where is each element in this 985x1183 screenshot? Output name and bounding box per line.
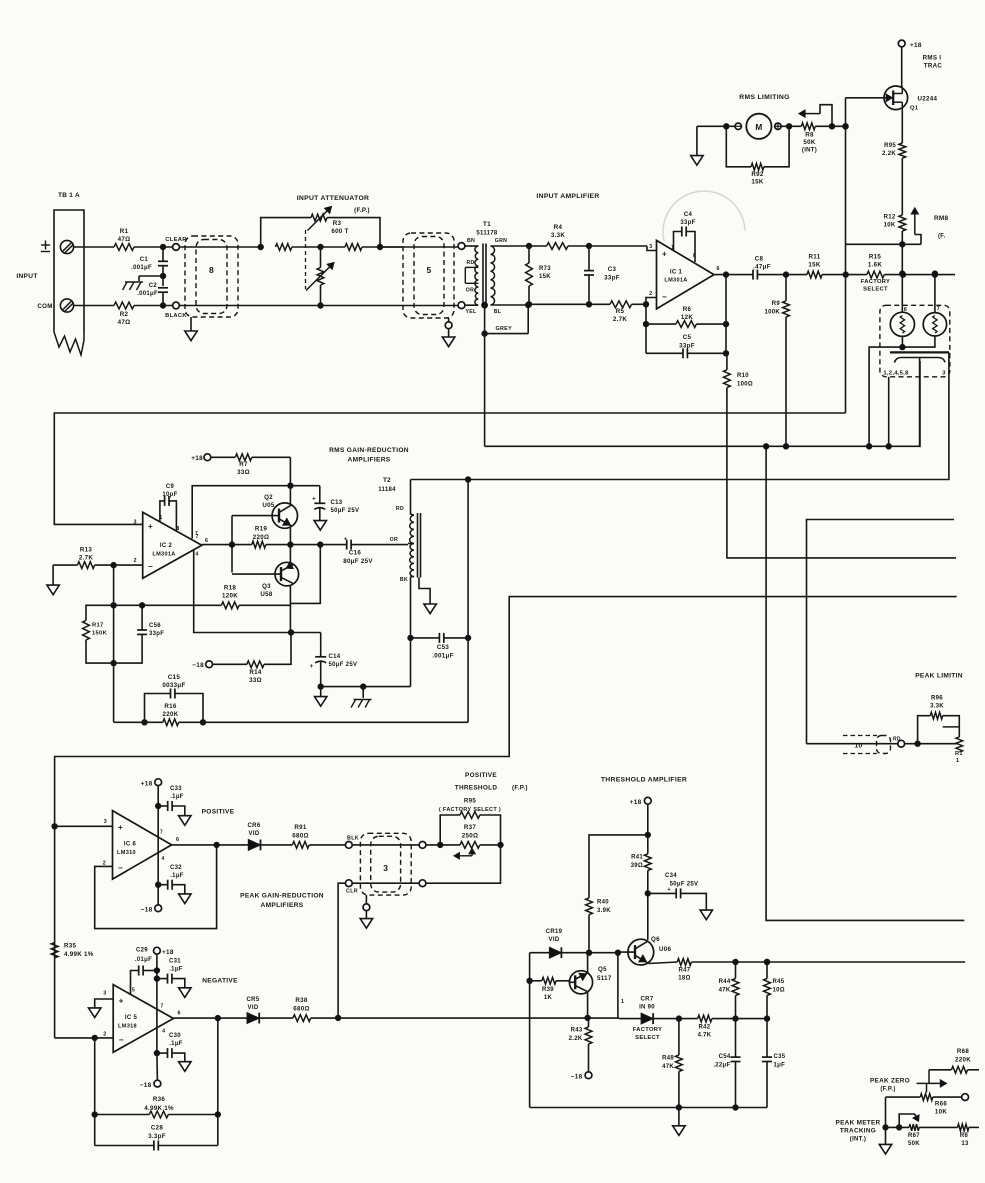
svg-text:2: 2 bbox=[133, 558, 136, 564]
terminal -18 RMS bbox=[192, 661, 212, 669]
svg-text:CR19: CR19 bbox=[546, 929, 563, 935]
svg-text:7: 7 bbox=[195, 531, 198, 537]
terminal +18 RMS bbox=[191, 454, 211, 462]
svg-text:INPUT: INPUT bbox=[16, 273, 37, 280]
svg-text:3: 3 bbox=[104, 819, 107, 825]
svg-text:AMPLIFIERS: AMPLIFIERS bbox=[261, 902, 304, 909]
svg-text:R8: R8 bbox=[805, 132, 814, 139]
wire T2 bk down bbox=[410, 638, 412, 687]
wire R66 left down bbox=[883, 1097, 888, 1144]
potentiometer R12 RM8 bbox=[846, 208, 949, 247]
resistor R5 bbox=[610, 301, 632, 323]
wire net y597 bbox=[55, 597, 957, 1038]
T2 core ground bbox=[419, 578, 436, 614]
svg-text:(F.P.): (F.P.) bbox=[880, 1087, 895, 1093]
svg-text:18Ω: 18Ω bbox=[678, 976, 690, 982]
wire BLACK to attenuator bbox=[179, 303, 323, 308]
potentiometer R8 bbox=[799, 105, 846, 154]
transformer T1 core bbox=[483, 244, 486, 308]
svg-text:+: + bbox=[119, 997, 124, 1006]
wire to connector 5 top bbox=[380, 246, 458, 248]
terminal +18 threshold bbox=[630, 797, 651, 806]
svg-text:.01μF: .01μF bbox=[135, 957, 152, 963]
resistor R1 bbox=[114, 228, 134, 250]
wire Q1 gate bbox=[846, 98, 885, 413]
svg-text:R95: R95 bbox=[464, 798, 477, 805]
svg-text:C35: C35 bbox=[774, 1054, 786, 1060]
resistor R16 bbox=[145, 703, 469, 726]
svg-text:2.2K: 2.2K bbox=[882, 151, 896, 157]
terminal -18 IC5 bbox=[140, 1080, 161, 1089]
wire net y519 bbox=[807, 520, 955, 744]
svg-text:C8: C8 bbox=[755, 256, 764, 263]
feedback vertical IC1 bbox=[723, 275, 728, 356]
svg-text:THRESHOLD: THRESHOLD bbox=[455, 785, 498, 792]
svg-text:2.7K: 2.7K bbox=[79, 555, 94, 562]
svg-text:6: 6 bbox=[205, 538, 208, 544]
resistor R45 bbox=[764, 962, 785, 1019]
diode CR19 bbox=[546, 929, 563, 958]
wire CR19 line bbox=[530, 950, 621, 955]
T1 secondary wire GRN bbox=[491, 238, 530, 246]
photocell bar bbox=[890, 351, 949, 353]
wire T1 to R4 bbox=[526, 243, 546, 248]
svg-text:C54: C54 bbox=[719, 1054, 731, 1060]
svg-text:−: − bbox=[119, 1036, 124, 1045]
svg-text:INPUT ATTENUATOR: INPUT ATTENUATOR bbox=[297, 195, 370, 202]
lamp 7 bbox=[923, 306, 946, 336]
wire CR19 to Q5 bbox=[561, 952, 618, 954]
wire R9 node bbox=[783, 272, 807, 277]
svg-text:C30: C30 bbox=[169, 1033, 181, 1039]
wire R5 to IC1 pin2 bbox=[632, 291, 657, 307]
T1 primary wire YEL bbox=[465, 305, 478, 315]
ground C14 bbox=[315, 687, 327, 707]
capacitor C32 bbox=[158, 865, 191, 904]
svg-text:R14: R14 bbox=[249, 669, 262, 676]
resistor R3 series a bbox=[275, 244, 292, 251]
resistor R47 bbox=[677, 959, 965, 982]
svg-text:POSITIVE: POSITIVE bbox=[202, 809, 235, 816]
wire Q6 emitter line bbox=[649, 959, 770, 964]
svg-text:R66: R66 bbox=[935, 1101, 948, 1108]
resistor R17 bbox=[83, 605, 114, 663]
capacitor C33 bbox=[158, 786, 191, 825]
wire conn10 to pot bbox=[905, 741, 957, 746]
node CLR bbox=[345, 880, 419, 895]
svg-text:YEL: YEL bbox=[466, 309, 478, 315]
svg-text:3: 3 bbox=[133, 520, 136, 526]
wire lamp7 top bbox=[932, 271, 937, 313]
svg-text:−: − bbox=[662, 293, 667, 302]
resistor R48 bbox=[662, 1019, 682, 1108]
terminal block TB1A bbox=[54, 192, 84, 355]
wire input high bbox=[74, 244, 173, 249]
wire bus to IC6 bbox=[55, 819, 113, 826]
svg-text:3.3K: 3.3K bbox=[551, 232, 566, 239]
node bus IC6 input bbox=[52, 824, 57, 829]
capacitor C56 bbox=[114, 605, 165, 663]
svg-text:2.2K: 2.2K bbox=[569, 1036, 583, 1042]
svg-text:R36: R36 bbox=[153, 1096, 166, 1103]
svg-text:LM318: LM318 bbox=[118, 1024, 137, 1030]
svg-text:R5: R5 bbox=[616, 308, 625, 315]
dashed enclosure lamps bbox=[880, 305, 950, 377]
svg-text:+18: +18 bbox=[141, 781, 153, 788]
transformer T1 labels bbox=[476, 221, 498, 237]
svg-text:R41: R41 bbox=[631, 855, 643, 861]
svg-text:C56: C56 bbox=[149, 623, 161, 629]
lamp 6 bbox=[890, 307, 914, 336]
wire photocell right side bbox=[948, 352, 950, 478]
svg-text:3: 3 bbox=[942, 371, 946, 377]
svg-text:R12: R12 bbox=[884, 215, 896, 221]
capacitor C30 bbox=[157, 1033, 191, 1071]
resistor R18 bbox=[221, 585, 290, 609]
wire +18 to Q1 bbox=[901, 47, 903, 87]
svg-text:PEAK GAIN-REDUCTION: PEAK GAIN-REDUCTION bbox=[240, 893, 324, 900]
node gate-R8 bbox=[843, 124, 848, 129]
svg-text:RMS LIMITING: RMS LIMITING bbox=[739, 94, 789, 101]
svg-text:PEAK ZERO: PEAK ZERO bbox=[870, 1078, 910, 1085]
svg-text:R43: R43 bbox=[571, 1028, 583, 1034]
T1 shield GREY bbox=[482, 302, 531, 336]
potentiometer R67 bbox=[886, 1114, 958, 1147]
svg-text:1,2,4,5,8: 1,2,4,5,8 bbox=[883, 371, 909, 377]
svg-text:CLR: CLR bbox=[346, 889, 358, 895]
svg-text:R35: R35 bbox=[64, 943, 77, 950]
capacitor C16 bbox=[343, 537, 408, 566]
svg-text:TRAC: TRAC bbox=[924, 63, 943, 70]
svg-text:1K: 1K bbox=[544, 995, 553, 1001]
svg-text:4: 4 bbox=[195, 552, 198, 558]
svg-text:10pF: 10pF bbox=[162, 492, 177, 498]
node R11-R15 bbox=[843, 272, 867, 277]
label pin 3 bbox=[942, 371, 946, 377]
svg-text:50μF 25V: 50μF 25V bbox=[331, 508, 360, 514]
resistor R91 bbox=[292, 824, 345, 848]
label POSITIVE bbox=[202, 809, 235, 816]
svg-text:7: 7 bbox=[937, 306, 940, 312]
svg-text:Q2: Q2 bbox=[264, 494, 273, 501]
svg-text:33Ω: 33Ω bbox=[249, 677, 262, 684]
screw terminal + (input high) bbox=[60, 240, 73, 253]
svg-text:C4: C4 bbox=[684, 212, 693, 218]
resistor R2 bbox=[114, 302, 134, 326]
potentiometer R66 bbox=[886, 1070, 962, 1116]
connector 3 bbox=[360, 833, 411, 895]
svg-text:TB 1 A: TB 1 A bbox=[58, 192, 80, 199]
wire stub x321 bbox=[291, 545, 320, 604]
svg-text:+18: +18 bbox=[191, 455, 203, 462]
wire pin4 rail bbox=[194, 549, 321, 635]
svg-text:RMS I: RMS I bbox=[923, 55, 942, 62]
svg-text:R67: R67 bbox=[908, 1133, 920, 1139]
svg-text:7: 7 bbox=[160, 1004, 163, 1010]
wire R38 to threshold bbox=[311, 1015, 619, 1020]
svg-text:R13: R13 bbox=[80, 547, 93, 554]
svg-text:R92: R92 bbox=[751, 171, 764, 178]
wire Q6 base node down bbox=[618, 953, 624, 1018]
label NEGATIVE bbox=[202, 978, 238, 985]
wire CR6 to R91 bbox=[261, 844, 293, 846]
svg-text:OR: OR bbox=[390, 537, 398, 543]
wire CR7 line bbox=[619, 1016, 698, 1021]
svg-text:C9: C9 bbox=[166, 484, 175, 490]
svg-text:1μF: 1μF bbox=[774, 1063, 786, 1069]
label PEAK METER TRACKING bbox=[836, 1120, 881, 1143]
resistor R96 loop bbox=[918, 696, 960, 744]
svg-text:3.3K: 3.3K bbox=[930, 704, 944, 710]
svg-text:OR: OR bbox=[466, 288, 474, 294]
label INPUT ATTENUATOR bbox=[297, 195, 370, 214]
capacitor C28 bbox=[95, 1125, 218, 1151]
svg-text:CLEAR: CLEAR bbox=[165, 237, 187, 243]
svg-text:C14: C14 bbox=[329, 654, 341, 660]
svg-text:6: 6 bbox=[904, 307, 907, 313]
svg-text:15K: 15K bbox=[539, 274, 551, 280]
terminal +18 top bbox=[898, 40, 922, 49]
svg-text:SELECT: SELECT bbox=[635, 1035, 660, 1041]
svg-text:+: + bbox=[667, 887, 671, 893]
wire Q3 collector bbox=[289, 585, 291, 632]
svg-text:C3: C3 bbox=[608, 266, 617, 273]
wire Q5 collector bbox=[587, 992, 589, 1018]
svg-text:50μF 25V: 50μF 25V bbox=[329, 662, 358, 668]
svg-text:RM8: RM8 bbox=[934, 215, 949, 222]
svg-text:R91: R91 bbox=[294, 824, 307, 831]
svg-text:R96: R96 bbox=[931, 696, 943, 702]
svg-text:15K: 15K bbox=[808, 262, 820, 269]
wire net grey shield down bbox=[484, 334, 486, 447]
svg-text:CR7: CR7 bbox=[641, 997, 654, 1003]
capacitor C54 bbox=[713, 1019, 740, 1108]
op-amp IC5 bbox=[103, 985, 181, 1053]
resistor R9 bbox=[764, 275, 789, 317]
resistor R15 factory select bbox=[861, 254, 955, 293]
op-amp IC1 bbox=[657, 240, 720, 309]
svg-text:R11: R11 bbox=[809, 254, 821, 261]
capacitor C14 bbox=[310, 633, 358, 687]
wire +18 down bbox=[645, 804, 650, 854]
svg-text:.1μF: .1μF bbox=[170, 873, 184, 879]
svg-text:−18: −18 bbox=[192, 662, 204, 669]
meter minus terminal bbox=[735, 123, 741, 129]
svg-text:+18: +18 bbox=[910, 42, 922, 49]
svg-text:+18: +18 bbox=[162, 949, 174, 956]
svg-text:4: 4 bbox=[161, 856, 164, 862]
svg-text:.1μF: .1μF bbox=[169, 1041, 183, 1047]
node C14 gnd bbox=[318, 684, 411, 689]
svg-text:2: 2 bbox=[103, 861, 106, 867]
connector 5 bbox=[403, 233, 454, 318]
transformer T2 labels bbox=[378, 477, 396, 493]
svg-text:BLK: BLK bbox=[347, 836, 359, 842]
wire meter right to R8 bbox=[781, 125, 801, 127]
capacitor C3 bbox=[584, 246, 620, 304]
svg-text:R16: R16 bbox=[164, 703, 177, 710]
wire R12 node down bbox=[900, 244, 905, 312]
diode CR5 bbox=[247, 997, 260, 1024]
svg-text:PEAK METER: PEAK METER bbox=[836, 1120, 881, 1127]
capacitor C29 bbox=[131, 948, 157, 995]
capacitor C2 bbox=[137, 283, 168, 306]
svg-text:R37: R37 bbox=[464, 824, 477, 831]
svg-text:U06: U06 bbox=[659, 946, 672, 953]
resistor R11 bbox=[807, 254, 846, 279]
wire conn3 to R37 bbox=[426, 842, 460, 847]
svg-text:C28: C28 bbox=[151, 1125, 164, 1132]
svg-text:600 T: 600 T bbox=[331, 228, 348, 235]
svg-text:.22μF: .22μF bbox=[713, 1063, 730, 1069]
label RMS LIMITING bbox=[739, 94, 789, 101]
stray pencil arc bbox=[663, 191, 745, 241]
wire lamp6 bottom bbox=[900, 336, 905, 349]
resistor R95 factory select bbox=[439, 798, 501, 845]
svg-text:BL: BL bbox=[494, 309, 502, 315]
svg-text:T1: T1 bbox=[483, 221, 491, 228]
svg-text:7: 7 bbox=[160, 830, 163, 836]
capacitor C8 bbox=[753, 256, 786, 280]
svg-text:(INT): (INT) bbox=[802, 148, 817, 154]
svg-text:R3: R3 bbox=[333, 220, 342, 227]
svg-text:R73: R73 bbox=[539, 266, 551, 272]
ground threshold bbox=[673, 1108, 685, 1136]
transformer T1 secondary winding bbox=[491, 246, 495, 305]
node lamp6 top bbox=[900, 272, 905, 277]
svg-text:47Ω: 47Ω bbox=[118, 236, 131, 243]
svg-text:IC 1: IC 1 bbox=[670, 270, 683, 276]
diode CR7 factory select bbox=[633, 997, 662, 1042]
svg-text:(F.: (F. bbox=[938, 234, 946, 240]
svg-text:10K: 10K bbox=[935, 1109, 947, 1116]
svg-text:680Ω: 680Ω bbox=[292, 833, 309, 840]
svg-text:150K: 150K bbox=[92, 631, 108, 637]
svg-text:12K: 12K bbox=[681, 314, 693, 321]
resistor R92 loop bbox=[726, 124, 792, 186]
svg-text:R18: R18 bbox=[224, 585, 237, 592]
svg-text:−18: −18 bbox=[140, 1082, 152, 1089]
wire R9 lower bbox=[785, 317, 787, 446]
svg-text:3: 3 bbox=[383, 863, 388, 873]
wire net T2 top (y480) bbox=[411, 477, 949, 482]
svg-text:RD: RD bbox=[466, 260, 474, 266]
wire R4 to IC1 pin3 bbox=[568, 243, 657, 250]
T1 primary wire BN bbox=[465, 238, 478, 246]
photocell tap bbox=[919, 358, 921, 447]
ground R13 bbox=[47, 565, 59, 595]
resistor R19 bbox=[252, 526, 291, 549]
transformer T2 winding bbox=[390, 506, 414, 583]
svg-text:LM310: LM310 bbox=[117, 850, 136, 856]
svg-text:2: 2 bbox=[103, 1032, 106, 1038]
svg-text:C16: C16 bbox=[349, 550, 362, 557]
wire net gate bus (y413) bbox=[54, 413, 845, 524]
op-amp IC2 bbox=[133, 512, 208, 578]
svg-text:NEGATIVE: NEGATIVE bbox=[202, 978, 238, 985]
svg-text:Q3: Q3 bbox=[262, 583, 271, 590]
resistor R68 bbox=[929, 1048, 979, 1073]
resistor R10 bbox=[724, 353, 754, 387]
svg-text:+18: +18 bbox=[630, 799, 642, 806]
svg-text:10Ω: 10Ω bbox=[773, 988, 785, 994]
svg-text:U05: U05 bbox=[262, 502, 275, 509]
svg-text:IC 2: IC 2 bbox=[160, 543, 173, 549]
svg-text:R42: R42 bbox=[699, 1025, 711, 1031]
svg-text:+: + bbox=[310, 664, 314, 670]
svg-text:BN: BN bbox=[467, 238, 475, 244]
resistor R73 bbox=[526, 246, 552, 304]
terminal conn3 right bottom bbox=[419, 880, 426, 887]
svg-text:R39: R39 bbox=[542, 987, 554, 993]
wire rail to R40 bbox=[589, 835, 648, 898]
svg-text:U2244: U2244 bbox=[918, 96, 938, 103]
ground C13 bbox=[314, 521, 326, 531]
label R3 600T bbox=[331, 220, 348, 235]
svg-text:.001μF: .001μF bbox=[137, 291, 158, 297]
svg-text:R17: R17 bbox=[92, 623, 104, 629]
meter M bbox=[746, 114, 771, 139]
svg-text:220Ω: 220Ω bbox=[253, 534, 270, 541]
wire to connector 5 bottom bbox=[321, 305, 459, 307]
resistor R40 bbox=[586, 898, 612, 953]
capacitor C53 bbox=[411, 633, 471, 660]
svg-text:50μF 25V: 50μF 25V bbox=[670, 882, 699, 888]
wire conn10 bbox=[807, 737, 901, 744]
wire Q6 line right end bbox=[764, 959, 769, 964]
T1 tap strap bbox=[464, 267, 466, 283]
wire IC6 power bbox=[156, 786, 161, 888]
svg-text:80μF 25V: 80μF 25V bbox=[343, 558, 373, 565]
svg-text:R38: R38 bbox=[295, 997, 308, 1004]
svg-text:INPUT AMPLIFIER: INPUT AMPLIFIER bbox=[536, 193, 599, 200]
terminal conn5 top bbox=[458, 243, 465, 250]
svg-text:3: 3 bbox=[103, 991, 106, 997]
wire meter left bbox=[697, 124, 735, 129]
svg-text:100K: 100K bbox=[764, 310, 780, 316]
svg-text:−18: −18 bbox=[571, 1074, 583, 1081]
resistor R7 bbox=[211, 454, 291, 476]
svg-text:C13: C13 bbox=[331, 500, 343, 506]
svg-text:C15: C15 bbox=[168, 674, 181, 681]
svg-text:47K: 47K bbox=[719, 988, 731, 994]
svg-text:RMS GAIN-REDUCTION: RMS GAIN-REDUCTION bbox=[329, 447, 409, 454]
resistor R3 series b bbox=[345, 244, 403, 251]
wire CLR down bbox=[335, 883, 345, 1020]
svg-text:R40: R40 bbox=[597, 900, 609, 906]
svg-text:Q1: Q1 bbox=[910, 106, 919, 112]
svg-text:POSITIVE: POSITIVE bbox=[465, 772, 497, 779]
svg-text:5: 5 bbox=[426, 265, 431, 275]
node R8 right bbox=[843, 124, 848, 129]
wire IC5 pin3 ground bbox=[89, 999, 114, 1018]
wire T2 OR tap bbox=[408, 543, 414, 545]
wire IC5 to -18 bbox=[156, 1053, 159, 1080]
wire Q2 emitter bbox=[288, 528, 293, 548]
svg-text:U58: U58 bbox=[260, 591, 273, 598]
wire R18 bbox=[139, 603, 221, 608]
svg-text:250Ω: 250Ω bbox=[462, 833, 479, 840]
svg-text:VID: VID bbox=[549, 937, 560, 943]
resistor R95 (2.2K) bbox=[882, 109, 906, 215]
svg-text:R68: R68 bbox=[957, 1048, 970, 1055]
wire T2 bottom bbox=[408, 577, 414, 641]
label RMS LIM TRACK bbox=[923, 55, 943, 70]
svg-text:33pF: 33pF bbox=[604, 275, 620, 282]
svg-text:R95: R95 bbox=[884, 143, 896, 149]
ground peak tracking bbox=[879, 1144, 891, 1154]
svg-text:R4: R4 bbox=[554, 224, 563, 231]
